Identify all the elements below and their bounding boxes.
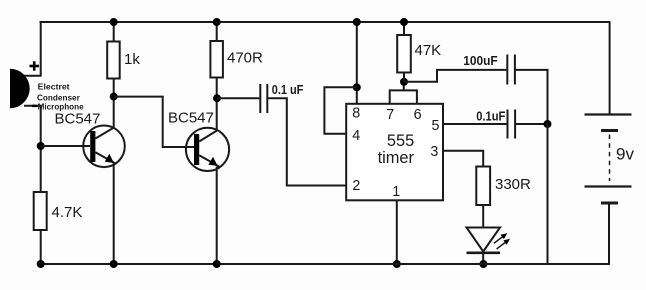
svg-text:1k: 1k bbox=[124, 51, 140, 68]
svg-text:5: 5 bbox=[432, 118, 440, 134]
svg-text:0.1 uF: 0.1 uF bbox=[272, 82, 304, 97]
wire 100uF to right vertical bbox=[515, 70, 548, 124]
wire battery negative to ground rail bbox=[608, 203, 610, 264]
wire pins 7-6 bracket bbox=[390, 90, 417, 103]
wire 1k top to rail bbox=[113, 22, 115, 42]
wire coupling Q1 collector to Q2 base bbox=[114, 97, 194, 147]
svg-text:1: 1 bbox=[392, 184, 400, 200]
battery BT1 9v bbox=[585, 115, 632, 204]
node top rail / pin8 wire bbox=[353, 18, 361, 26]
wire 47K top to rail bbox=[403, 22, 405, 35]
LED D1 bbox=[467, 228, 501, 265]
svg-text:Electret: Electret bbox=[38, 82, 70, 91]
microphone body (electret condenser microphone) bbox=[10, 69, 30, 108]
resistor 47K bbox=[397, 35, 411, 73]
svg-text:BC547: BC547 bbox=[55, 111, 101, 128]
wire pin 1 to ground rail bbox=[396, 200, 398, 264]
svg-text:0.1uF: 0.1uF bbox=[476, 108, 505, 123]
node LED / ground rail bbox=[479, 260, 487, 268]
wire pin 5 to 0.1uF capacitor bbox=[443, 123, 507, 125]
node top rail / 1k bbox=[110, 18, 118, 26]
resistor 4.7K bbox=[34, 192, 47, 230]
svg-text:4: 4 bbox=[352, 128, 360, 144]
wire right vertical to ground rail bbox=[547, 124, 549, 264]
svg-text:47K: 47K bbox=[415, 42, 442, 59]
node top rail / 470R bbox=[213, 18, 221, 26]
node ground rail / Q2 emitter bbox=[213, 260, 221, 268]
svg-text:Condenser: Condenser bbox=[37, 93, 80, 102]
microphone plus terminal mark bbox=[30, 61, 40, 70]
op-amp/timer U1 555 box bbox=[346, 104, 443, 201]
wire Q2 collector to coupling capacitor bbox=[217, 97, 260, 99]
wire left vertical from mic minus down to resistor bbox=[40, 106, 42, 192]
wire Q2 emitter down bbox=[216, 167, 218, 265]
svg-text:4.7K: 4.7K bbox=[52, 204, 83, 221]
wire bracket to 47K node bbox=[403, 82, 405, 91]
wire 330R to LED bbox=[482, 205, 484, 228]
svg-text:BC547: BC547 bbox=[168, 110, 214, 127]
svg-text:9v: 9v bbox=[616, 145, 634, 164]
wire 470R top to rail bbox=[216, 22, 218, 41]
node Q2 collector junction bbox=[213, 94, 221, 102]
svg-text:555: 555 bbox=[387, 132, 414, 150]
wire 4.7K to ground rail bbox=[40, 230, 42, 264]
capacitor C3 0.1uF bbox=[508, 110, 516, 139]
node Q1 collector junction bbox=[110, 93, 118, 101]
wire Q1 base bbox=[41, 145, 90, 147]
wire pin 4 branch bbox=[324, 87, 356, 134]
microphone minus terminal mark bbox=[32, 105, 38, 107]
svg-text:6: 6 bbox=[414, 107, 422, 123]
transistor Q1 BC547 bbox=[83, 126, 125, 168]
resistor 330R bbox=[476, 167, 490, 206]
capacitor C1 0.1 uF coupling bbox=[260, 84, 267, 113]
wire left vertical from top rail to mic plus bbox=[40, 22, 42, 76]
node right vertical / caps bbox=[544, 120, 552, 128]
LED emission arrow 2 bbox=[497, 239, 510, 249]
capacitor C2 100uF bbox=[507, 55, 515, 85]
node ground rail / 4.7K bbox=[37, 260, 45, 268]
wire top supply rail bbox=[40, 21, 611, 23]
svg-text:470R: 470R bbox=[227, 50, 263, 67]
wire node to 100uF capacitor bbox=[404, 70, 506, 82]
svg-text:2: 2 bbox=[352, 178, 360, 194]
wire Q2 collector up bbox=[216, 98, 218, 131]
node pin8 wire / pin4 branch bbox=[353, 83, 361, 91]
svg-text:7: 7 bbox=[386, 107, 394, 123]
svg-text:330R: 330R bbox=[495, 176, 531, 193]
wire top rail to battery positive bbox=[609, 22, 611, 115]
svg-text:8: 8 bbox=[352, 105, 360, 121]
wire mic minus lead bbox=[24, 105, 42, 107]
wire C1 to pin 2 of 555 bbox=[267, 98, 346, 185]
LED emission arrow 1 bbox=[494, 233, 507, 243]
node below 47K bbox=[400, 78, 408, 86]
wire Q1 collector up bbox=[113, 97, 115, 128]
resistor 470R bbox=[210, 41, 223, 78]
wire bottom ground rail bbox=[41, 263, 610, 265]
wire 1k bottom bbox=[113, 79, 115, 97]
wire 0.1uF to right vertical bbox=[515, 123, 547, 125]
svg-text:100uF: 100uF bbox=[463, 53, 497, 68]
node top rail / 47K bbox=[400, 18, 408, 26]
label Electret Condenser Microphone bbox=[37, 82, 84, 111]
wire pin 8 to top rail bbox=[356, 22, 358, 104]
wire mic plus lead bbox=[24, 75, 42, 77]
resistor 1k bbox=[107, 42, 120, 79]
node ground rail / Q1 emitter bbox=[110, 260, 118, 268]
node pin1 / ground rail bbox=[393, 260, 401, 268]
wire 47K bottom to node bbox=[403, 73, 405, 82]
transistor Q2 BC547 bbox=[186, 128, 229, 171]
wire 470R bottom bbox=[216, 78, 218, 99]
svg-text:timer: timer bbox=[378, 149, 415, 167]
wire pin 3 to 330R bbox=[443, 151, 483, 167]
svg-text:3: 3 bbox=[430, 144, 438, 160]
wire Q1 emitter down bbox=[113, 164, 115, 265]
node junction mic/base bbox=[37, 142, 45, 150]
